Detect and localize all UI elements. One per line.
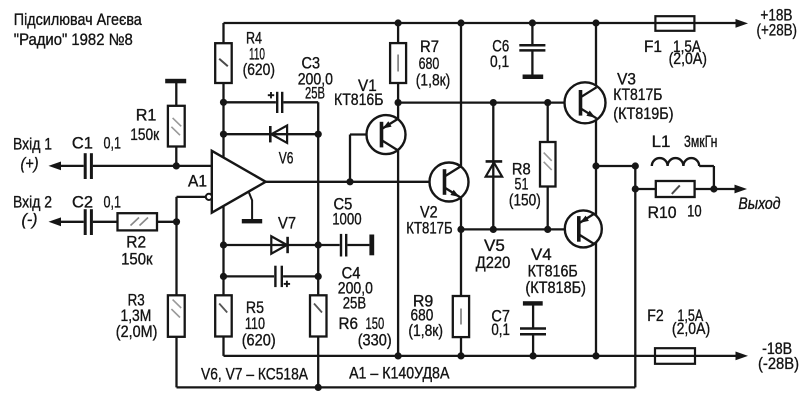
svg-text:F1: F1 — [644, 38, 662, 56]
svg-text:А1 – К140УД8А: А1 – К140УД8А — [349, 365, 449, 383]
svg-text:Выход: Выход — [738, 195, 780, 213]
svg-text:(-): (-) — [22, 211, 38, 229]
svg-text:(620): (620) — [243, 61, 275, 79]
svg-text:680: 680 — [419, 55, 440, 73]
svg-text:R1: R1 — [136, 107, 157, 125]
svg-text:R2: R2 — [126, 234, 146, 252]
svg-text:R7: R7 — [420, 38, 439, 56]
svg-text:25В: 25В — [305, 85, 325, 103]
svg-text:C2: C2 — [72, 194, 93, 212]
svg-text:A1: A1 — [188, 173, 207, 191]
svg-text:0,1: 0,1 — [490, 53, 509, 71]
svg-text:3мкГн: 3мкГн — [684, 133, 717, 151]
svg-text:0,1: 0,1 — [104, 134, 122, 152]
svg-text:25В: 25В — [343, 295, 366, 313]
svg-text:V7: V7 — [278, 215, 296, 233]
svg-text:1000: 1000 — [332, 211, 362, 229]
svg-text:0,1: 0,1 — [491, 321, 510, 339]
svg-text:КТ817Б: КТ817Б — [406, 220, 452, 238]
svg-text:(КТ818Б): (КТ818Б) — [525, 279, 586, 297]
svg-text:Д220: Д220 — [476, 254, 511, 272]
svg-text:(+): (+) — [21, 155, 39, 173]
svg-text:150к: 150к — [130, 126, 160, 144]
svg-text:(620): (620) — [242, 332, 276, 350]
svg-text:(+28В): (+28В) — [757, 22, 798, 40]
svg-text:F2: F2 — [647, 307, 663, 325]
svg-text:КТ816Б: КТ816Б — [528, 262, 578, 280]
svg-text:(1,8к): (1,8к) — [408, 322, 443, 340]
svg-text:R10: R10 — [648, 204, 677, 222]
svg-text:КТ816Б: КТ816Б — [334, 91, 384, 109]
svg-text:(1,8к): (1,8к) — [416, 71, 451, 89]
svg-text:(-28В): (-28В) — [758, 355, 799, 373]
svg-text:(2,0М): (2,0М) — [116, 323, 158, 341]
svg-text:Вхід 1: Вхід 1 — [13, 136, 52, 154]
svg-text:L1: L1 — [652, 133, 671, 151]
svg-text:110: 110 — [245, 315, 265, 333]
svg-text:(2,0А): (2,0А) — [669, 50, 707, 68]
svg-text:V2: V2 — [420, 203, 438, 221]
svg-text:0,1: 0,1 — [104, 194, 122, 212]
svg-text:10: 10 — [687, 203, 702, 221]
svg-text:КТ817Б: КТ817Б — [613, 86, 662, 104]
svg-text:(330): (330) — [358, 332, 392, 350]
svg-text:V5: V5 — [484, 237, 505, 255]
svg-text:V4: V4 — [531, 246, 552, 264]
svg-text:R6: R6 — [339, 315, 359, 333]
svg-text:"Радио" 1982 №8: "Радио" 1982 №8 — [14, 31, 133, 49]
svg-text:(150): (150) — [509, 192, 541, 210]
svg-text:V6, V7 – КС518А: V6, V7 – КС518А — [201, 365, 308, 383]
svg-text:Підсилювач Агеєва: Підсилювач Агеєва — [14, 11, 143, 29]
svg-text:C1: C1 — [72, 134, 93, 152]
svg-text:(КТ819Б): (КТ819Б) — [613, 105, 673, 123]
svg-text:(2,0А): (2,0А) — [672, 320, 710, 338]
svg-text:150к: 150к — [121, 251, 153, 269]
svg-text:Вхід 2: Вхід 2 — [13, 194, 52, 212]
svg-text:150: 150 — [366, 315, 385, 333]
svg-text:V6: V6 — [279, 150, 294, 168]
